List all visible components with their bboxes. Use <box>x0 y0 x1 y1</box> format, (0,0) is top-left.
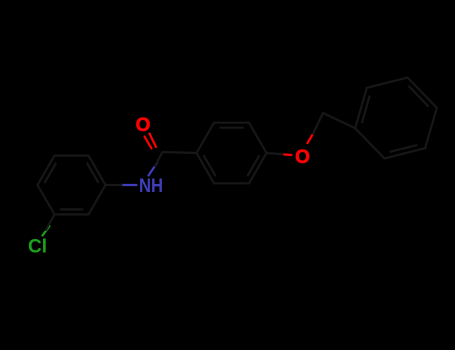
left ring inner aromatic lines <box>87 163 98 182</box>
svg-text:O: O <box>136 115 151 136</box>
amide N-C bond blue half <box>149 163 158 176</box>
Cl-ring bond dark half <box>46 214 55 229</box>
N-aryl bond blue half <box>122 184 137 186</box>
amide N-C bond dark half <box>155 152 163 166</box>
ether O to CH2 bond red half <box>308 134 314 143</box>
central ring inner aromatic lines <box>220 127 242 129</box>
ether O to CH2 bond dark half <box>313 113 323 134</box>
N-aryl bond dark half <box>106 184 122 186</box>
ring to ether O bond red half <box>284 153 291 156</box>
ring to ether O bond dark half <box>267 153 285 155</box>
svg-text:O: O <box>295 147 310 168</box>
svg-text:NH: NH <box>139 176 163 197</box>
CH2 to benzyl ring bond <box>323 113 355 128</box>
benzyl phenyl ring <box>408 78 437 108</box>
carbonyl C=O double bond (red) <box>38 78 437 236</box>
central benzene ring <box>249 123 267 153</box>
Cl-ring bond green half <box>43 226 50 236</box>
benzyl ring inner aromatic lines <box>409 87 428 106</box>
svg-text:Cl: Cl <box>28 237 47 258</box>
left chlorophenyl ring <box>89 156 106 185</box>
carbonyl C to central ring bond <box>163 152 197 153</box>
